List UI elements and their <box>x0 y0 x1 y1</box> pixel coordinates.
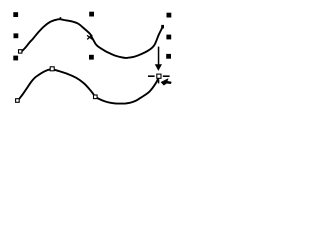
top curve <box>21 19 162 58</box>
selection handle top-middle <box>89 12 94 17</box>
x marker on top curve <box>87 35 92 40</box>
selection handle top-left <box>13 12 18 17</box>
end marker of top curve <box>161 25 164 29</box>
selection handle middle-right <box>166 35 171 40</box>
apex tick of top curve <box>60 17 62 19</box>
bottom curve <box>20 69 159 103</box>
selection handle bottom-right <box>166 54 171 59</box>
node 2 (apex) of bottom curve <box>50 67 54 71</box>
down arrow line <box>158 47 160 66</box>
selection handle bottom-left <box>13 56 18 61</box>
node 1 (start) of bottom curve <box>16 99 20 103</box>
crosshair bottom tick <box>158 79 159 83</box>
crosshair left dash <box>148 75 155 77</box>
cursor pointer arrow <box>161 79 171 86</box>
crosshair right dash <box>163 75 170 77</box>
selection handle top-right <box>167 13 172 18</box>
selection handle bottom-middle <box>89 55 94 60</box>
crosshair node square <box>157 74 161 78</box>
selection handle middle-left <box>14 33 19 38</box>
down arrow head <box>155 64 162 71</box>
start node of top curve <box>19 50 22 53</box>
node 3 (valley) of bottom curve <box>94 95 98 99</box>
